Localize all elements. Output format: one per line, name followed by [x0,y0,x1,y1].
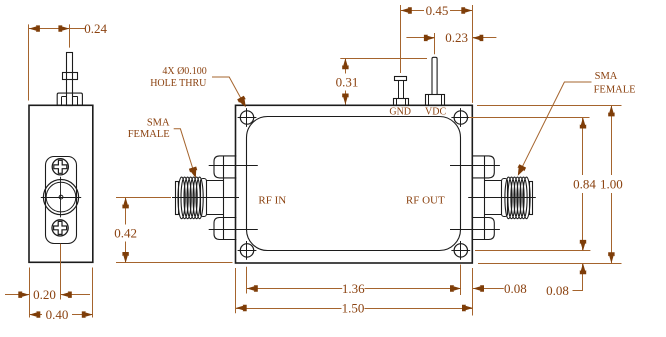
right SMA connector centerline [468,197,536,199]
svg-text:FEMALE: FEMALE [594,84,636,95]
dim 0.45 dimension line and arrows [401,10,424,12]
dim 0.24 extension line (pin centerline) [69,24,71,47]
svg-text:1.36: 1.36 [342,281,365,296]
svg-text:HOLE THRU: HOLE THRU [150,78,207,89]
dim 0.23 arrows and lines [406,37,435,39]
svg-text:0.08: 0.08 [504,281,527,296]
dim 0.45/0.23 extension line (box right edge) [472,5,474,103]
left view: pin collar [63,73,78,80]
left view: flange screw bottom [52,220,68,236]
dim 0.20 arrows and lines [5,294,29,296]
svg-text:1.50: 1.50 [342,300,365,315]
dim 0.23 extension line (VDC centerline) [434,33,436,54]
svg-text:0.31: 0.31 [336,74,359,89]
corner screw hole top-left [240,111,253,124]
GND pin cap [395,77,407,81]
left view: flange screw top [52,159,68,175]
dim 0.84 dimension line and arrows [582,118,584,176]
svg-text:0.20: 0.20 [33,287,56,302]
right SMA mounting ear top [472,156,494,178]
left view: SMA flange plate (stadium) [46,157,77,244]
svg-text:0.08: 0.08 [546,283,569,298]
right SMA end cap [530,182,533,215]
svg-text:0.24: 0.24 [84,21,107,36]
svg-text:RF OUT: RF OUT [406,194,445,206]
svg-text:FEMALE: FEMALE [128,129,170,140]
dim 1.36 left extension line (screw centerline) [246,267,248,294]
GND pin base [394,99,409,106]
dim 0.31 top extension line (pin top) [340,58,427,60]
dim 1.36 right extension line (screw centerline) [460,265,462,296]
dim 1.50 right extension line (box right edge) [472,268,474,316]
left SMA connector centerline [172,197,239,199]
right SMA ear screw centerlines [450,165,500,167]
dim 0.31 dimension line and arrows [345,58,347,73]
dim 0.20 left extension line [29,268,31,318]
left view: VDC pin rod [67,53,73,106]
corner screw hole bottom-left [240,244,253,257]
svg-text:0.84: 0.84 [573,176,596,191]
GND pin stem [398,80,400,98]
left view: SMA connector inner circle [46,182,76,212]
svg-text:0.42: 0.42 [114,225,137,240]
right SMA mounting ear bottom [472,218,494,240]
left view: module body (end view) [29,105,93,262]
left SMA washer [201,179,207,217]
svg-text:GND: GND [389,107,411,118]
left view: connector center pin [59,195,63,199]
dim 1.50 left extension line (box left edge) [235,268,237,313]
svg-text:VDC: VDC [425,106,446,117]
main view: lid rounded rectangle [247,117,461,251]
corner screw hole bottom-right [454,244,467,257]
leader for hole callout [212,77,244,103]
dim 0.40 right extension line [92,268,94,318]
left view: SMA connector barrel (outer circle) [43,180,78,215]
dim 0.45 extension line (GND centerline) [400,5,402,73]
left SMA mounting ear top [214,156,236,178]
left SMA ear screw centerlines [209,165,258,167]
extension line box bottom right [478,263,622,265]
dim 1.00 dimension line and arrows [611,105,613,175]
svg-text:1.00: 1.00 [600,176,623,191]
svg-text:0.45: 0.45 [426,3,449,18]
dim 0.20 center extension line (connector centerline) [60,244,62,300]
right SMA threads [505,177,512,219]
VDC pin base [426,95,445,106]
svg-text:0.23: 0.23 [445,30,468,45]
dim 0.42 bottom extension line (box bottom) [116,262,233,264]
svg-text:0.40: 0.40 [46,307,69,322]
left SMA threads [178,177,185,219]
dim 0.42 dimension line and arrows [125,197,127,224]
dim 0.24 dimension line and arrows [29,28,85,30]
left view: pin base feet [61,97,63,106]
svg-text:SMA: SMA [595,71,618,82]
right SMA washer [502,179,508,217]
extension line screw centerline bottom right [475,250,590,252]
VDC pin rod [432,57,437,94]
dim 0.08 right (screw line to box bottom) [582,263,584,290]
left SMA end cap [176,182,179,215]
right SMA barrel [485,180,502,182]
main view: module body outline [236,105,473,263]
right SMA flange plate line [484,156,486,239]
svg-text:4X Ø0.100: 4X Ø0.100 [162,66,206,77]
dim 0.08 left (screw to edge) arrow and text [473,288,504,290]
left view: pin base housing [57,93,82,105]
left SMA flange plate line [223,156,225,239]
dim 1.50 dimension line and arrows [236,308,342,310]
svg-text:SMA: SMA [147,118,170,129]
extension line box top right [477,105,622,107]
dim 0.40 dimension line and arrows [29,314,42,316]
dim 0.24 extension line (box left edge) [28,24,30,100]
leader for right SMA label [522,82,592,168]
corner screw hole top-right [454,111,467,124]
dim 1.36 dimension line and arrows [247,288,342,290]
dim 0.42 top extension line (connector centerline) [116,197,171,199]
left SMA barrel [206,180,223,182]
left SMA mounting ear bottom [214,218,236,240]
leader for left SMA label [174,129,194,171]
left view: connector crosshairs [41,197,81,199]
extension line screw centerline top right [469,117,590,119]
svg-text:RF IN: RF IN [258,194,286,206]
